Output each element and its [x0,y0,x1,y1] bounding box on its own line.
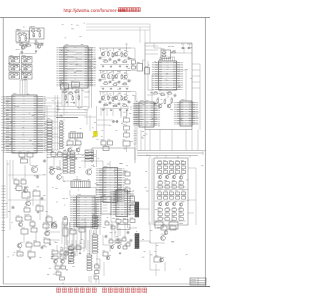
svg-text:http://jdwx5u.com/forumer-689: http://jdwx5u.com/forumer-689 [64,8,126,13]
